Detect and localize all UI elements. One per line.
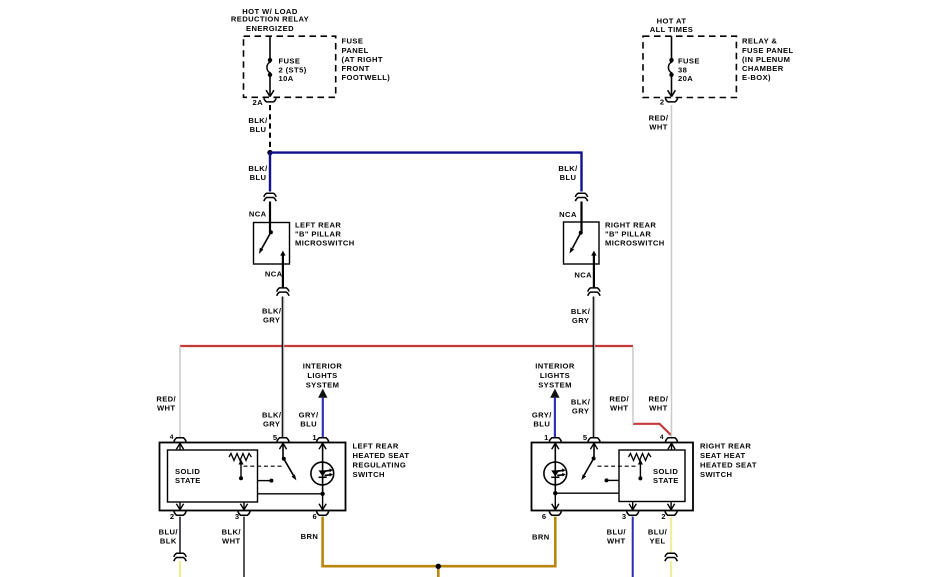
svg-text:(AT RIGHT: (AT RIGHT (342, 55, 383, 64)
wire YEL continuation (179, 561, 181, 577)
svg-text:2A: 2A (252, 98, 263, 107)
svg-text:BRN: BRN (301, 532, 319, 541)
svg-text:FOOTWELL): FOOTWELL) (342, 73, 391, 82)
wire BLK/GRY (left) (282, 297, 283, 438)
pin sockets (right box bottom) (549, 511, 677, 515)
connector pin 2 (female cup) (665, 98, 677, 102)
svg-text:RED/: RED/ (649, 114, 669, 123)
inline connector (right BLK/BLU to NCA) (575, 193, 587, 201)
wire fuse 38 to panel edge (671, 77, 673, 97)
microswitch S2 (right rear B pillar) (564, 222, 600, 264)
svg-text:PANEL: PANEL (342, 46, 369, 55)
wire BLU/BLK (left pin 2) (179, 517, 181, 553)
svg-text:FUSE: FUSE (678, 57, 700, 66)
svg-text:NCA: NCA (249, 210, 267, 219)
svg-text:BLU: BLU (560, 173, 577, 182)
svg-text:4: 4 (170, 434, 174, 441)
arrow out of fuse panel (668, 90, 676, 96)
wire RED/WHT (from fuse 38 to pin 4) (671, 105, 673, 437)
svg-text:YEL: YEL (650, 536, 666, 545)
svg-text:GRY: GRY (572, 316, 589, 325)
fuse 38 20A (668, 58, 673, 77)
svg-text:HEATED SEAT: HEATED SEAT (353, 451, 410, 460)
wire BLK/WHT (left pin 3) (243, 517, 245, 577)
wire label BLU/BLK (159, 527, 179, 545)
svg-text:INTERIOR: INTERIOR (303, 362, 343, 371)
mechanical link dashed (598, 465, 639, 467)
svg-text:RED/: RED/ (156, 395, 176, 404)
microswitch S1 (left rear B pillar) (254, 223, 290, 265)
svg-text:FUSE: FUSE (279, 57, 301, 66)
heated seat switch (right) outer box (532, 443, 694, 511)
wire label BLK/GRY (left pin 5) (262, 411, 282, 429)
solid state label (653, 467, 679, 485)
wire NCA (right) (580, 202, 582, 233)
svg-text:1: 1 (312, 433, 317, 442)
wire BLK/GRY (right) (593, 297, 594, 438)
svg-text:BLK/: BLK/ (248, 116, 268, 125)
mechanical link dashed (244, 465, 284, 467)
wire to solid state (258, 493, 323, 495)
pin 4 internal wire (179, 443, 181, 450)
svg-text:"B" PILLAR: "B" PILLAR (605, 230, 651, 239)
svg-text:BLK/: BLK/ (222, 527, 242, 536)
svg-text:GRY/: GRY/ (532, 411, 552, 420)
wire label GRY/BLU (left pin 1) (299, 411, 319, 429)
svg-text:FRONT: FRONT (342, 64, 370, 73)
svg-text:BLU: BLU (250, 125, 267, 134)
wire label RED/WHT (right fuse run) (649, 395, 669, 413)
wire label BLK/GRY (right pin 5) (571, 398, 591, 416)
fuse panel label (left) (342, 37, 391, 82)
svg-text:4: 4 (660, 434, 664, 441)
junction (267, 150, 272, 155)
wire label BLK/WHT (222, 527, 242, 545)
pin arrows (right box bottom) (552, 504, 675, 510)
svg-text:3: 3 (622, 512, 627, 521)
wire RED/WHT highlighted run (180, 345, 633, 347)
fuse 2 value label (279, 57, 307, 84)
svg-text:RIGHT REAR: RIGHT REAR (605, 221, 656, 230)
wire label GRY/BLU (right pin 1) (532, 411, 552, 429)
svg-text:WHT: WHT (157, 404, 176, 413)
svg-text:GRY: GRY (572, 407, 589, 416)
svg-text:BLU: BLU (250, 173, 267, 182)
indicator LED (left) (311, 443, 334, 494)
svg-text:WHT: WHT (649, 404, 668, 413)
svg-text:2: 2 (660, 97, 665, 106)
wiper arrow (239, 459, 244, 480)
svg-text:NCA: NCA (265, 269, 283, 278)
wire GRY/BLU arrow (right) (550, 389, 559, 437)
svg-text:6: 6 (542, 512, 547, 521)
wire NCA out of S2 (593, 253, 595, 288)
fuse 2 (ST5) 10A (267, 58, 272, 77)
svg-text:STATE: STATE (175, 476, 201, 485)
arrow out of fuse panel (266, 90, 274, 96)
node label HOT AT ALL TIMES (650, 17, 694, 35)
svg-text:BLK/: BLK/ (248, 164, 268, 173)
pin 2 internal wire (179, 502, 181, 510)
svg-text:GRY: GRY (263, 420, 280, 429)
resistor (right heater element) (629, 454, 652, 461)
svg-text:BLU: BLU (533, 420, 550, 429)
svg-text:BLK/: BLK/ (558, 164, 578, 173)
fuse panel box (left, dashed) (244, 36, 336, 97)
wire BRN bus (323, 517, 556, 577)
svg-text:LIGHTS: LIGHTS (540, 371, 570, 380)
svg-text:NCA: NCA (574, 270, 592, 279)
wire label BLK/GRY (262, 306, 282, 324)
switch arm (right, pin 5) (581, 443, 595, 480)
switch arm (left, pin 5) (282, 443, 297, 480)
svg-text:2: 2 (170, 512, 175, 521)
svg-text:20A: 20A (678, 74, 693, 83)
switch contact stub (605, 478, 620, 482)
node label HOT W/ LOAD REDUCTION RELAY ENERGIZED (231, 7, 309, 33)
fuse 38 value label (678, 57, 700, 84)
indicator LED (right) (544, 443, 567, 493)
wire NCA (left) (269, 202, 271, 233)
solid state module (left) (168, 450, 258, 502)
wire RED/WHT (left vertical) (179, 346, 181, 437)
wire BLU/YEL continuation (670, 561, 672, 577)
svg-text:WHT: WHT (649, 123, 668, 132)
svg-text:BRN: BRN (532, 533, 550, 542)
svg-text:E-BOX): E-BOX) (742, 73, 771, 82)
inline connector (left BLK/BLU to NCA) (264, 193, 276, 201)
svg-text:BLK/: BLK/ (262, 411, 282, 420)
svg-text:HEATED SEAT: HEATED SEAT (700, 461, 757, 470)
pin arrows (left box top) (176, 443, 326, 449)
svg-text:BLU: BLU (300, 420, 317, 429)
svg-text:SYSTEM: SYSTEM (538, 380, 572, 389)
svg-text:ALL TIMES: ALL TIMES (650, 25, 694, 34)
wire label BLK/BLU (248, 116, 268, 134)
wiper arrow (638, 459, 643, 480)
inline connector (left pin 2) (174, 553, 186, 561)
wire RED/WHT highlighted corner to pin 4 (633, 424, 671, 435)
svg-text:FUSE PANEL: FUSE PANEL (742, 46, 794, 55)
svg-text:GRY/: GRY/ (299, 411, 319, 420)
svg-text:SOLID: SOLID (653, 467, 678, 476)
svg-text:RELAY &: RELAY & (742, 37, 777, 46)
svg-text:10A: 10A (279, 74, 294, 83)
pin 2 internal wire (670, 502, 672, 511)
pin 4 internal wire (671, 443, 673, 450)
svg-text:BLK/: BLK/ (571, 398, 591, 407)
fuse panel box (right, dashed) (643, 36, 736, 97)
svg-text:"B" PILLAR: "B" PILLAR (295, 230, 341, 239)
svg-text:ENERGIZED: ENERGIZED (246, 24, 294, 33)
svg-text:REDUCTION RELAY: REDUCTION RELAY (231, 15, 309, 24)
pin numbers (right box) (542, 433, 666, 521)
svg-text:1: 1 (544, 433, 549, 442)
inline connector (left NCA to BLK/GRY) (277, 288, 289, 296)
inline connector (right pin 2) (665, 553, 677, 561)
svg-text:BLU/: BLU/ (159, 527, 179, 536)
wire label RED/WHT (left) (156, 395, 176, 413)
pin sockets (left box top) (174, 438, 329, 442)
wire to solid state (555, 492, 619, 494)
pin arrows (right box top) (552, 443, 675, 449)
svg-text:INTERIOR: INTERIOR (535, 362, 575, 371)
connector 2A (female cup) (264, 98, 276, 102)
junction (BRN bus) (436, 564, 441, 569)
heated seat switch (left) outer box (160, 443, 346, 511)
svg-text:FUSE: FUSE (342, 37, 364, 46)
svg-text:LEFT REAR: LEFT REAR (295, 221, 341, 230)
svg-text:(IN PLENUM: (IN PLENUM (742, 55, 790, 64)
relay and fuse panel label (right) (742, 37, 794, 82)
pin 3 internal wire (632, 502, 634, 511)
svg-text:SOLID: SOLID (175, 467, 200, 476)
svg-text:SWITCH: SWITCH (353, 470, 385, 479)
svg-text:MICROSWITCH: MICROSWITCH (605, 239, 665, 248)
svg-text:GRY: GRY (263, 315, 280, 324)
inline connector (right NCA to BLK/GRY) (588, 288, 600, 296)
wire label BLK/GRY (571, 307, 591, 325)
svg-text:RED/: RED/ (609, 395, 629, 404)
wire BLK/BLU dashed (269, 105, 271, 151)
wire RED/WHT (mid vertical) (632, 347, 634, 424)
wire into fuse 38 (671, 36, 673, 58)
wire label BLU/YEL (648, 527, 668, 545)
resistor (left heater element) (229, 454, 252, 461)
switch contact stub (258, 479, 274, 483)
node label INTERIOR LIGHTS SYSTEM (left) (303, 362, 343, 390)
pin sockets (left box bottom) (174, 511, 329, 515)
pin numbers (left box) (170, 433, 318, 521)
svg-text:RED/: RED/ (649, 395, 669, 404)
wire label RED/WHT (right mid) (609, 395, 629, 413)
svg-text:BLK: BLK (160, 536, 177, 545)
svg-text:3: 3 (235, 512, 240, 521)
svg-text:5: 5 (583, 433, 588, 442)
wire label BLK/BLU (left drop) (248, 164, 268, 182)
svg-text:WHT: WHT (222, 536, 241, 545)
pin arrows (left box bottom) (176, 504, 326, 510)
svg-text:WHT: WHT (610, 404, 629, 413)
svg-text:NCA: NCA (559, 210, 577, 219)
wire GRY/BLU arrow (left) (318, 389, 327, 437)
svg-text:BLK/: BLK/ (262, 306, 282, 315)
wire BLK/BLU bus (270, 153, 582, 192)
svg-text:SWITCH: SWITCH (700, 470, 732, 479)
pin 6 internal wire (322, 494, 324, 510)
svg-text:SEAT HEAT: SEAT HEAT (700, 451, 746, 460)
svg-text:STATE: STATE (653, 476, 679, 485)
svg-text:WHT: WHT (607, 536, 626, 545)
svg-text:BLK/: BLK/ (571, 307, 591, 316)
wire NCA out of S1 (282, 253, 284, 288)
solid state module (right) (619, 450, 685, 502)
svg-text:5: 5 (273, 433, 278, 442)
junction in right switch (553, 491, 557, 495)
svg-text:RIGHT REAR: RIGHT REAR (700, 442, 751, 451)
microswitch S1 label (295, 221, 355, 248)
microswitch S2 label (605, 221, 665, 248)
svg-text:BLU/: BLU/ (648, 527, 668, 536)
switch label (right) (700, 442, 757, 480)
wire label BLK/BLU (right drop) (558, 164, 578, 182)
solid state label (175, 467, 201, 485)
wire BLU/WHT (right pin 3) (632, 517, 634, 577)
wire label BLU/WHT (607, 527, 627, 545)
svg-text:CHAMBER: CHAMBER (742, 64, 784, 73)
wire into fuse 2 (269, 36, 271, 58)
svg-text:REGULATING: REGULATING (353, 461, 407, 470)
wire BLU/YEL (right pin 2) (670, 517, 672, 553)
svg-text:LEFT REAR: LEFT REAR (353, 442, 399, 451)
node label INTERIOR LIGHTS SYSTEM (right) (535, 362, 575, 390)
pin 6 internal wire (554, 493, 556, 510)
svg-text:LIGHTS: LIGHTS (307, 371, 337, 380)
svg-text:SYSTEM: SYSTEM (306, 380, 340, 389)
pin sockets (right box top) (549, 438, 677, 442)
svg-text:BLU/: BLU/ (607, 527, 627, 536)
junction in left switch (320, 492, 324, 496)
svg-text:6: 6 (312, 512, 317, 521)
wire fuse to panel edge (269, 77, 271, 97)
svg-text:2: 2 (661, 512, 666, 521)
wire label RED/WHT (right fuse drop) (649, 114, 669, 132)
svg-text:MICROSWITCH: MICROSWITCH (295, 239, 355, 248)
pin 3 internal wire (243, 502, 245, 510)
switch label (left) (353, 442, 410, 480)
